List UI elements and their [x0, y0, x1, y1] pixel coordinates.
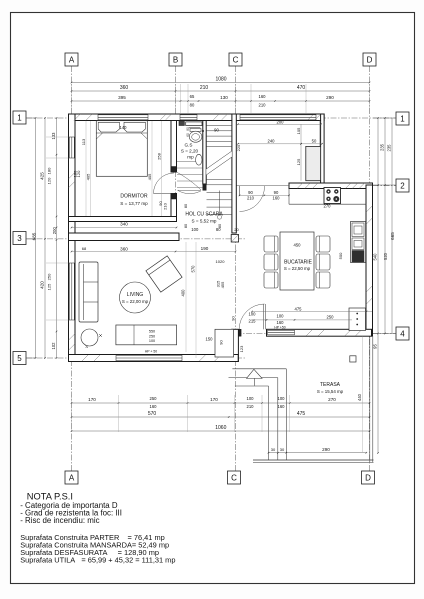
svg-text:290: 290 — [322, 447, 330, 452]
svg-text:665: 665 — [390, 232, 395, 240]
grid marker A bottom — [65, 471, 78, 484]
svg-text:A: A — [69, 55, 75, 64]
dim chain left mid — [44, 118, 46, 358]
svg-text:215: 215 — [249, 319, 257, 324]
grid axis C vertical — [235, 66, 237, 471]
svg-text:100: 100 — [249, 312, 257, 317]
dim row top detail — [72, 100, 370, 102]
svg-text:1080: 1080 — [215, 77, 226, 83]
dim witness left — [46, 136, 69, 138]
door post bedroom bottom — [171, 194, 177, 200]
round chair — [81, 329, 98, 346]
grid marker B top — [169, 53, 182, 66]
terasa east edge — [369, 336, 371, 462]
dim chain right outer — [391, 118, 393, 334]
svg-text:TERASA: TERASA — [320, 382, 341, 388]
svg-text:1020: 1020 — [216, 259, 226, 264]
dim chain right mid — [384, 118, 386, 334]
staircase break cut — [206, 151, 232, 175]
svg-text:400: 400 — [181, 289, 186, 297]
svg-text:100: 100 — [278, 396, 286, 401]
dim line living width 360/190 — [72, 251, 236, 253]
column C3 — [231, 235, 238, 243]
grid marker 1 right — [396, 112, 409, 125]
svg-text:160: 160 — [150, 404, 158, 409]
wall living east — [232, 329, 239, 361]
svg-text:210: 210 — [247, 196, 255, 201]
svg-text:550: 550 — [149, 329, 155, 333]
svg-text:160: 160 — [259, 94, 267, 99]
svg-text:4: 4 — [400, 329, 405, 338]
door hall-kitchen leaf+arc — [239, 186, 241, 196]
svg-text:80: 80 — [184, 204, 188, 208]
stove — [324, 188, 341, 204]
step landing living — [215, 329, 234, 357]
svg-text:200: 200 — [277, 119, 285, 124]
svg-text:80: 80 — [190, 102, 195, 107]
svg-text:160: 160 — [277, 320, 285, 325]
window living south — [116, 355, 182, 360]
coffee table round — [120, 282, 151, 313]
window bedroom west — [69, 137, 74, 158]
wall kitchen south — [267, 329, 372, 336]
svg-text:455: 455 — [220, 281, 225, 288]
dim chain left inner — [56, 118, 58, 358]
svg-text:210: 210 — [163, 202, 168, 209]
svg-text:NOTA P.S.I: NOTA P.S.I — [27, 491, 73, 501]
svg-text:HOL CU SCARA: HOL CU SCARA — [185, 212, 223, 218]
grid axis 4 horizontal — [225, 333, 396, 335]
svg-text:210: 210 — [259, 102, 267, 107]
dims bedroom — [85, 121, 87, 216]
svg-text:125: 125 — [296, 158, 301, 165]
svg-text:270: 270 — [328, 397, 336, 402]
window living west — [69, 263, 74, 320]
grid marker 4 right — [396, 327, 409, 340]
svg-text:5: 5 — [17, 354, 22, 363]
dim line kitchen 475 — [252, 311, 372, 313]
tv cabinet — [116, 325, 177, 345]
bed pillow left — [98, 122, 119, 132]
bathroom sink shelf — [189, 126, 200, 128]
svg-text:190: 190 — [201, 246, 209, 251]
svg-text:235: 235 — [380, 143, 385, 151]
svg-text:170: 170 — [88, 397, 96, 402]
svg-text:S = 22,00 mp: S = 22,00 mp — [122, 299, 149, 304]
dim line 200 upper room — [238, 123, 321, 125]
svg-text:360: 360 — [120, 247, 128, 252]
wall hatch marks — [74, 114, 81, 121]
grid marker A top — [65, 53, 78, 66]
svg-text:360: 360 — [120, 85, 129, 91]
svg-text:3: 3 — [17, 234, 22, 243]
finish line east upper — [318, 121, 320, 147]
grid marker 2 right — [396, 179, 409, 192]
svg-text:270: 270 — [324, 204, 332, 209]
wall west exterior — [69, 114, 76, 362]
svg-text:S = 13,77 mp: S = 13,77 mp — [120, 201, 148, 206]
svg-text:90: 90 — [248, 190, 253, 195]
svg-text:440: 440 — [357, 393, 362, 401]
svg-text:mp: mp — [187, 155, 194, 160]
svg-text:405: 405 — [85, 173, 90, 180]
bed blanket line — [96, 132, 147, 134]
door bedroom leaf+arc — [154, 193, 175, 195]
window bedroom north — [98, 115, 148, 120]
svg-text:90: 90 — [219, 340, 224, 345]
svg-text:235: 235 — [387, 144, 392, 152]
svg-text:65: 65 — [190, 94, 195, 99]
wall bath east / stair west — [203, 121, 206, 185]
svg-text:470: 470 — [297, 85, 306, 91]
svg-text:250: 250 — [149, 334, 155, 338]
dim row top axes — [72, 90, 370, 92]
wall kitchen east — [366, 185, 373, 336]
wall east upper — [321, 114, 325, 184]
svg-text:405: 405 — [147, 173, 152, 180]
svg-text:D: D — [365, 473, 371, 482]
svg-text:210: 210 — [200, 85, 209, 91]
grid marker 3 left — [13, 232, 26, 245]
marker stems left — [26, 117, 36, 119]
svg-text:80: 80 — [216, 227, 221, 232]
bathroom bidet — [196, 154, 202, 165]
door post kitchen south — [239, 329, 242, 336]
svg-text:105: 105 — [296, 127, 301, 134]
svg-text:80: 80 — [186, 127, 190, 131]
svg-text:1: 1 — [17, 113, 22, 122]
svg-text:30: 30 — [271, 447, 276, 452]
staircase upper flight treads — [206, 125, 232, 127]
wall bedroom east upper — [171, 121, 177, 173]
svg-text:20: 20 — [234, 227, 239, 232]
terasa step triangle — [247, 369, 263, 378]
kitchen low cabinet — [349, 308, 366, 331]
svg-text:258: 258 — [156, 152, 161, 159]
grid marker D bottom — [362, 471, 375, 484]
svg-text:210: 210 — [247, 404, 255, 409]
svg-text:225: 225 — [236, 144, 241, 151]
window hall north — [240, 115, 316, 120]
dining chairs — [264, 236, 278, 252]
svg-text:340: 340 — [120, 222, 128, 227]
dim row bottom overall 1060 — [72, 430, 370, 432]
svg-text:500: 500 — [338, 252, 343, 259]
grid axis 5 horizontal — [26, 357, 246, 359]
svg-text:Suprafata UTILA = 65,99 + 45: Suprafata UTILA = 65,99 + 45,32 = 111,31… — [20, 556, 175, 565]
svg-text:LIVING: LIVING — [127, 292, 144, 298]
beam line hall-kitchen — [236, 185, 289, 187]
svg-text:540: 540 — [372, 253, 377, 261]
svg-text:1: 1 — [400, 114, 405, 123]
door post stair — [203, 184, 206, 190]
svg-text:240: 240 — [268, 139, 276, 144]
svg-text:100: 100 — [191, 227, 199, 232]
svg-text:2: 2 — [400, 181, 405, 190]
svg-text:570: 570 — [191, 265, 196, 273]
svg-text:125: 125 — [47, 283, 52, 290]
wall living south — [69, 355, 239, 362]
grid marker 5 left — [13, 352, 26, 365]
svg-text:30: 30 — [280, 447, 285, 452]
svg-text:S = 5,52 mp: S = 5,52 mp — [192, 219, 217, 224]
terasa west steps — [232, 368, 286, 370]
armchair tilted — [146, 256, 182, 292]
grid axis B vertical — [175, 66, 177, 222]
svg-text:395: 395 — [118, 95, 126, 100]
staircase stringer line — [219, 191, 221, 216]
fridge tall unit — [351, 222, 366, 263]
dim witness lines bottom — [71, 395, 73, 432]
grid marker C top — [229, 53, 242, 66]
svg-text:S = 2,20: S = 2,20 — [181, 149, 199, 154]
svg-text:250: 250 — [47, 273, 52, 280]
svg-text:BUCATARIE: BUCATARIE — [284, 260, 313, 266]
dim chain right inner — [377, 118, 379, 453]
grid axis D vertical — [369, 66, 371, 471]
svg-text:160: 160 — [278, 404, 286, 409]
svg-text:570: 570 — [148, 411, 157, 417]
svg-text:290: 290 — [326, 95, 334, 100]
svg-text:HP + 50: HP + 50 — [145, 350, 157, 354]
svg-text:B: B — [173, 55, 178, 64]
svg-text:100: 100 — [247, 396, 255, 401]
dining table — [280, 232, 314, 290]
wall bedroom east lower — [171, 194, 177, 222]
svg-text:- Risc de incendiu: mic: - Risc de incendiu: mic — [20, 516, 99, 525]
bathroom knob — [202, 130, 204, 132]
svg-text:200: 200 — [52, 227, 57, 235]
dims terasa — [362, 336, 364, 452]
svg-text:150: 150 — [206, 337, 214, 342]
svg-text:180: 180 — [47, 167, 52, 174]
bathroom toilet tank — [190, 129, 201, 132]
dim line vertical 105/125 — [300, 124, 302, 180]
svg-text:90: 90 — [231, 316, 236, 321]
svg-text:113: 113 — [81, 138, 86, 145]
svg-text:100: 100 — [277, 314, 285, 319]
svg-text:60: 60 — [186, 133, 190, 137]
grid axis 1 horizontal — [26, 117, 396, 119]
window kitchen south — [268, 330, 295, 335]
svg-text:1060: 1060 — [215, 425, 226, 431]
stair winder walk line — [177, 172, 202, 190]
grid marker 1 left — [13, 111, 26, 124]
svg-text:180: 180 — [73, 170, 78, 177]
bathroom corner box — [179, 121, 184, 125]
wall living north — [69, 233, 180, 241]
kitchen counter front edge — [289, 203, 367, 205]
door living-terasa leaf+arc — [263, 304, 265, 329]
bed pillow right — [124, 122, 145, 132]
svg-text:68: 68 — [82, 246, 87, 251]
kitchen counter hatch — [297, 183, 303, 189]
svg-text:90: 90 — [274, 190, 279, 195]
svg-text:160: 160 — [273, 196, 281, 201]
svg-text:250: 250 — [327, 315, 335, 320]
svg-text:S = 15,54 mp: S = 15,54 mp — [317, 389, 344, 394]
grid axis A vertical — [71, 66, 73, 471]
dim line kitchen south 100/160/250 — [252, 319, 352, 321]
wall bedroom south — [69, 217, 177, 222]
svg-text:C: C — [233, 55, 239, 64]
svg-text:450: 450 — [294, 243, 302, 248]
svg-text:425: 425 — [40, 172, 45, 180]
terasa column — [350, 356, 356, 362]
dim line 240/50 upper room — [238, 143, 322, 145]
chimney flue — [306, 146, 321, 180]
svg-text:170: 170 — [210, 397, 218, 402]
staircase mid treads — [206, 179, 232, 181]
bed — [96, 121, 147, 177]
terasa south edge — [253, 459, 374, 461]
svg-text:420: 420 — [40, 281, 45, 289]
svg-text:130: 130 — [220, 95, 228, 100]
svg-text:520: 520 — [383, 252, 388, 260]
bathroom toilet bowl — [189, 131, 202, 142]
door post bedroom top — [171, 167, 177, 173]
svg-text:140: 140 — [120, 125, 128, 130]
dim witness lines top — [71, 84, 73, 113]
svg-text:95: 95 — [372, 344, 377, 349]
stair curved bottom step — [178, 190, 202, 193]
stair newel circle — [217, 215, 221, 219]
dim row top overall 1080 — [72, 82, 370, 84]
svg-text:475: 475 — [295, 307, 303, 312]
svg-text:102: 102 — [51, 342, 56, 350]
wall north exterior — [69, 114, 325, 121]
dim chain left outer — [35, 118, 37, 358]
wall kitchen north — [289, 183, 373, 189]
svg-text:S = 22,50 mp: S = 22,50 mp — [284, 266, 311, 271]
grid marker D top — [363, 53, 376, 66]
wall stair east — [232, 114, 236, 233]
svg-text:HP +50: HP +50 — [274, 325, 285, 329]
marker stems right — [373, 117, 396, 119]
stair winder treads — [177, 161, 203, 163]
window bathroom north — [180, 115, 197, 120]
grid axis 2 horizontal — [289, 185, 396, 187]
svg-text:120: 120 — [47, 177, 52, 184]
svg-text:D: D — [367, 55, 373, 64]
grid marker C bottom — [228, 471, 241, 484]
grid axis 3 horizontal — [26, 238, 246, 240]
dim line doors kitchen north — [240, 194, 290, 196]
svg-text:123: 123 — [239, 345, 244, 352]
svg-text:90: 90 — [214, 128, 219, 133]
svg-text:250: 250 — [150, 396, 158, 401]
svg-text:133: 133 — [51, 132, 56, 140]
staircase lower flight treads — [207, 192, 233, 194]
dim row bottom mid — [72, 416, 370, 418]
terasa west edge verticals — [268, 386, 270, 460]
bathroom sink counter — [186, 122, 202, 126]
svg-text:G.S: G.S — [185, 143, 193, 148]
svg-text:DORMITOR: DORMITOR — [120, 194, 148, 200]
svg-text:A: A — [69, 473, 75, 482]
svg-text:C: C — [231, 473, 237, 482]
dim row bottom detail — [72, 402, 370, 404]
svg-text:100: 100 — [149, 339, 155, 343]
sofa — [79, 262, 98, 322]
svg-text:475: 475 — [297, 411, 306, 417]
svg-text:50: 50 — [312, 139, 317, 144]
dim line bedroom width 340 — [72, 227, 177, 229]
svg-text:80: 80 — [184, 224, 188, 228]
